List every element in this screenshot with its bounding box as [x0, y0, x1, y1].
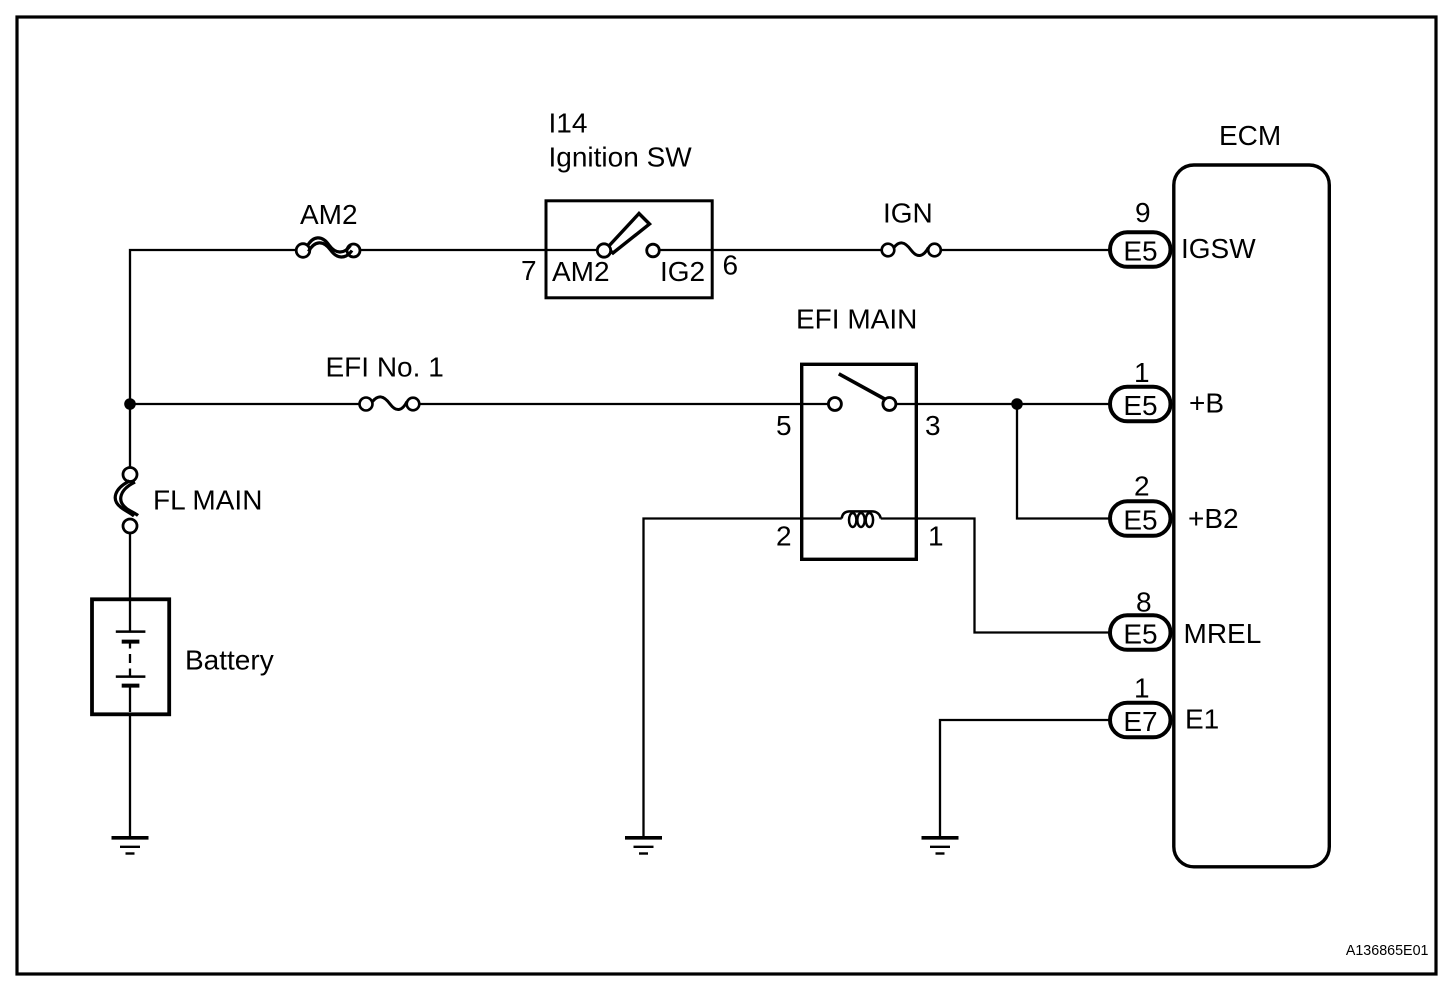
- wire: relay pin3 to +B: [896, 403, 1110, 405]
- ignition switch I14 box: [546, 201, 712, 298]
- svg-text:E5: E5: [1123, 505, 1157, 536]
- wire: AM2 fuse to ignition switch: [360, 249, 597, 251]
- svg-text:EFI MAIN: EFI MAIN: [796, 304, 917, 335]
- wire: ground leg to relay coil pin 2: [644, 519, 842, 837]
- svg-text:6: 6: [723, 250, 739, 281]
- svg-text:5: 5: [776, 410, 792, 441]
- relay switch blade: [839, 374, 886, 400]
- svg-text:AM2: AM2: [552, 256, 610, 287]
- wire: IGN fuse to IGSW connector: [941, 249, 1110, 251]
- svg-text:ECM: ECM: [1219, 120, 1281, 151]
- wire: ignition switch to IGN fuse: [659, 249, 881, 251]
- fuse IGN: [882, 243, 941, 256]
- fusible link AM2: [296, 238, 360, 257]
- svg-text:E7: E7: [1123, 706, 1157, 737]
- wire: EFI No.1 fuse to EFI MAIN relay: [419, 403, 828, 405]
- svg-text:8: 8: [1136, 587, 1152, 618]
- svg-text:IGSW: IGSW: [1181, 233, 1256, 264]
- svg-text:AM2: AM2: [300, 199, 358, 230]
- ECM box: [1174, 165, 1330, 867]
- svg-text:E1: E1: [1185, 704, 1219, 735]
- svg-text:1: 1: [1134, 357, 1150, 388]
- ground (E1): [922, 838, 959, 854]
- battery box: [92, 599, 169, 714]
- wire: row1 left vertical to AM2 fuse: [130, 250, 297, 468]
- svg-text:EFI No. 1: EFI No. 1: [326, 352, 444, 383]
- connector E5 pin 2 (+B2): [1110, 501, 1171, 536]
- ground (relay coil): [625, 838, 662, 854]
- svg-text:+B: +B: [1189, 388, 1224, 419]
- wire: battery to ground: [129, 716, 131, 836]
- svg-text:E5: E5: [1123, 390, 1157, 421]
- svg-text:IGN: IGN: [883, 198, 933, 229]
- svg-text:2: 2: [776, 521, 792, 552]
- svg-text:A136865E01: A136865E01: [1346, 943, 1429, 959]
- svg-text:9: 9: [1135, 197, 1151, 228]
- connector E5 pin 9 (IGSW): [1110, 232, 1171, 267]
- node junction (left, +B feed): [124, 398, 136, 410]
- svg-text:Battery: Battery: [185, 645, 274, 676]
- wire: junction down to +B2: [1017, 404, 1110, 519]
- connector E5 pin 8 (MREL): [1110, 615, 1171, 650]
- svg-text:1: 1: [1134, 673, 1150, 704]
- svg-text:E5: E5: [1123, 619, 1157, 650]
- contact AM2 (left): [597, 244, 610, 257]
- fuse EFI No. 1: [360, 397, 420, 411]
- switch lever (ignition): [607, 214, 650, 254]
- svg-text:Ignition SW: Ignition SW: [549, 142, 693, 173]
- relay coil: [842, 511, 881, 527]
- battery internal symbol: [116, 601, 146, 712]
- ground (battery): [112, 838, 149, 854]
- svg-text:MREL: MREL: [1184, 618, 1262, 649]
- contact IG2 (right): [647, 244, 660, 257]
- svg-text:+B2: +B2: [1188, 503, 1239, 534]
- svg-text:E5: E5: [1123, 236, 1157, 267]
- svg-text:I14: I14: [549, 108, 588, 139]
- svg-text:FL MAIN: FL MAIN: [153, 485, 262, 516]
- relay contact (pin 5): [828, 398, 841, 411]
- svg-text:2: 2: [1134, 471, 1150, 502]
- relay contact (pin 3): [883, 398, 896, 411]
- wire: E1 to ground: [940, 720, 1110, 836]
- svg-text:7: 7: [521, 255, 537, 286]
- connector E7 pin 1 (E1): [1110, 703, 1171, 738]
- node junction (+B/+B2): [1011, 398, 1023, 410]
- fusible link FL MAIN: [115, 468, 138, 534]
- connector E5 pin 1 (+B): [1110, 387, 1171, 422]
- wire: relay coil pin1 to MREL: [881, 519, 1110, 633]
- wire: row2 node to EFI No.1 fuse: [130, 403, 360, 405]
- svg-text:IG2: IG2: [660, 256, 705, 287]
- wire: FL MAIN to battery: [129, 533, 131, 599]
- relay EFI MAIN box: [802, 364, 917, 559]
- svg-text:3: 3: [925, 410, 941, 441]
- svg-text:1: 1: [928, 521, 944, 552]
